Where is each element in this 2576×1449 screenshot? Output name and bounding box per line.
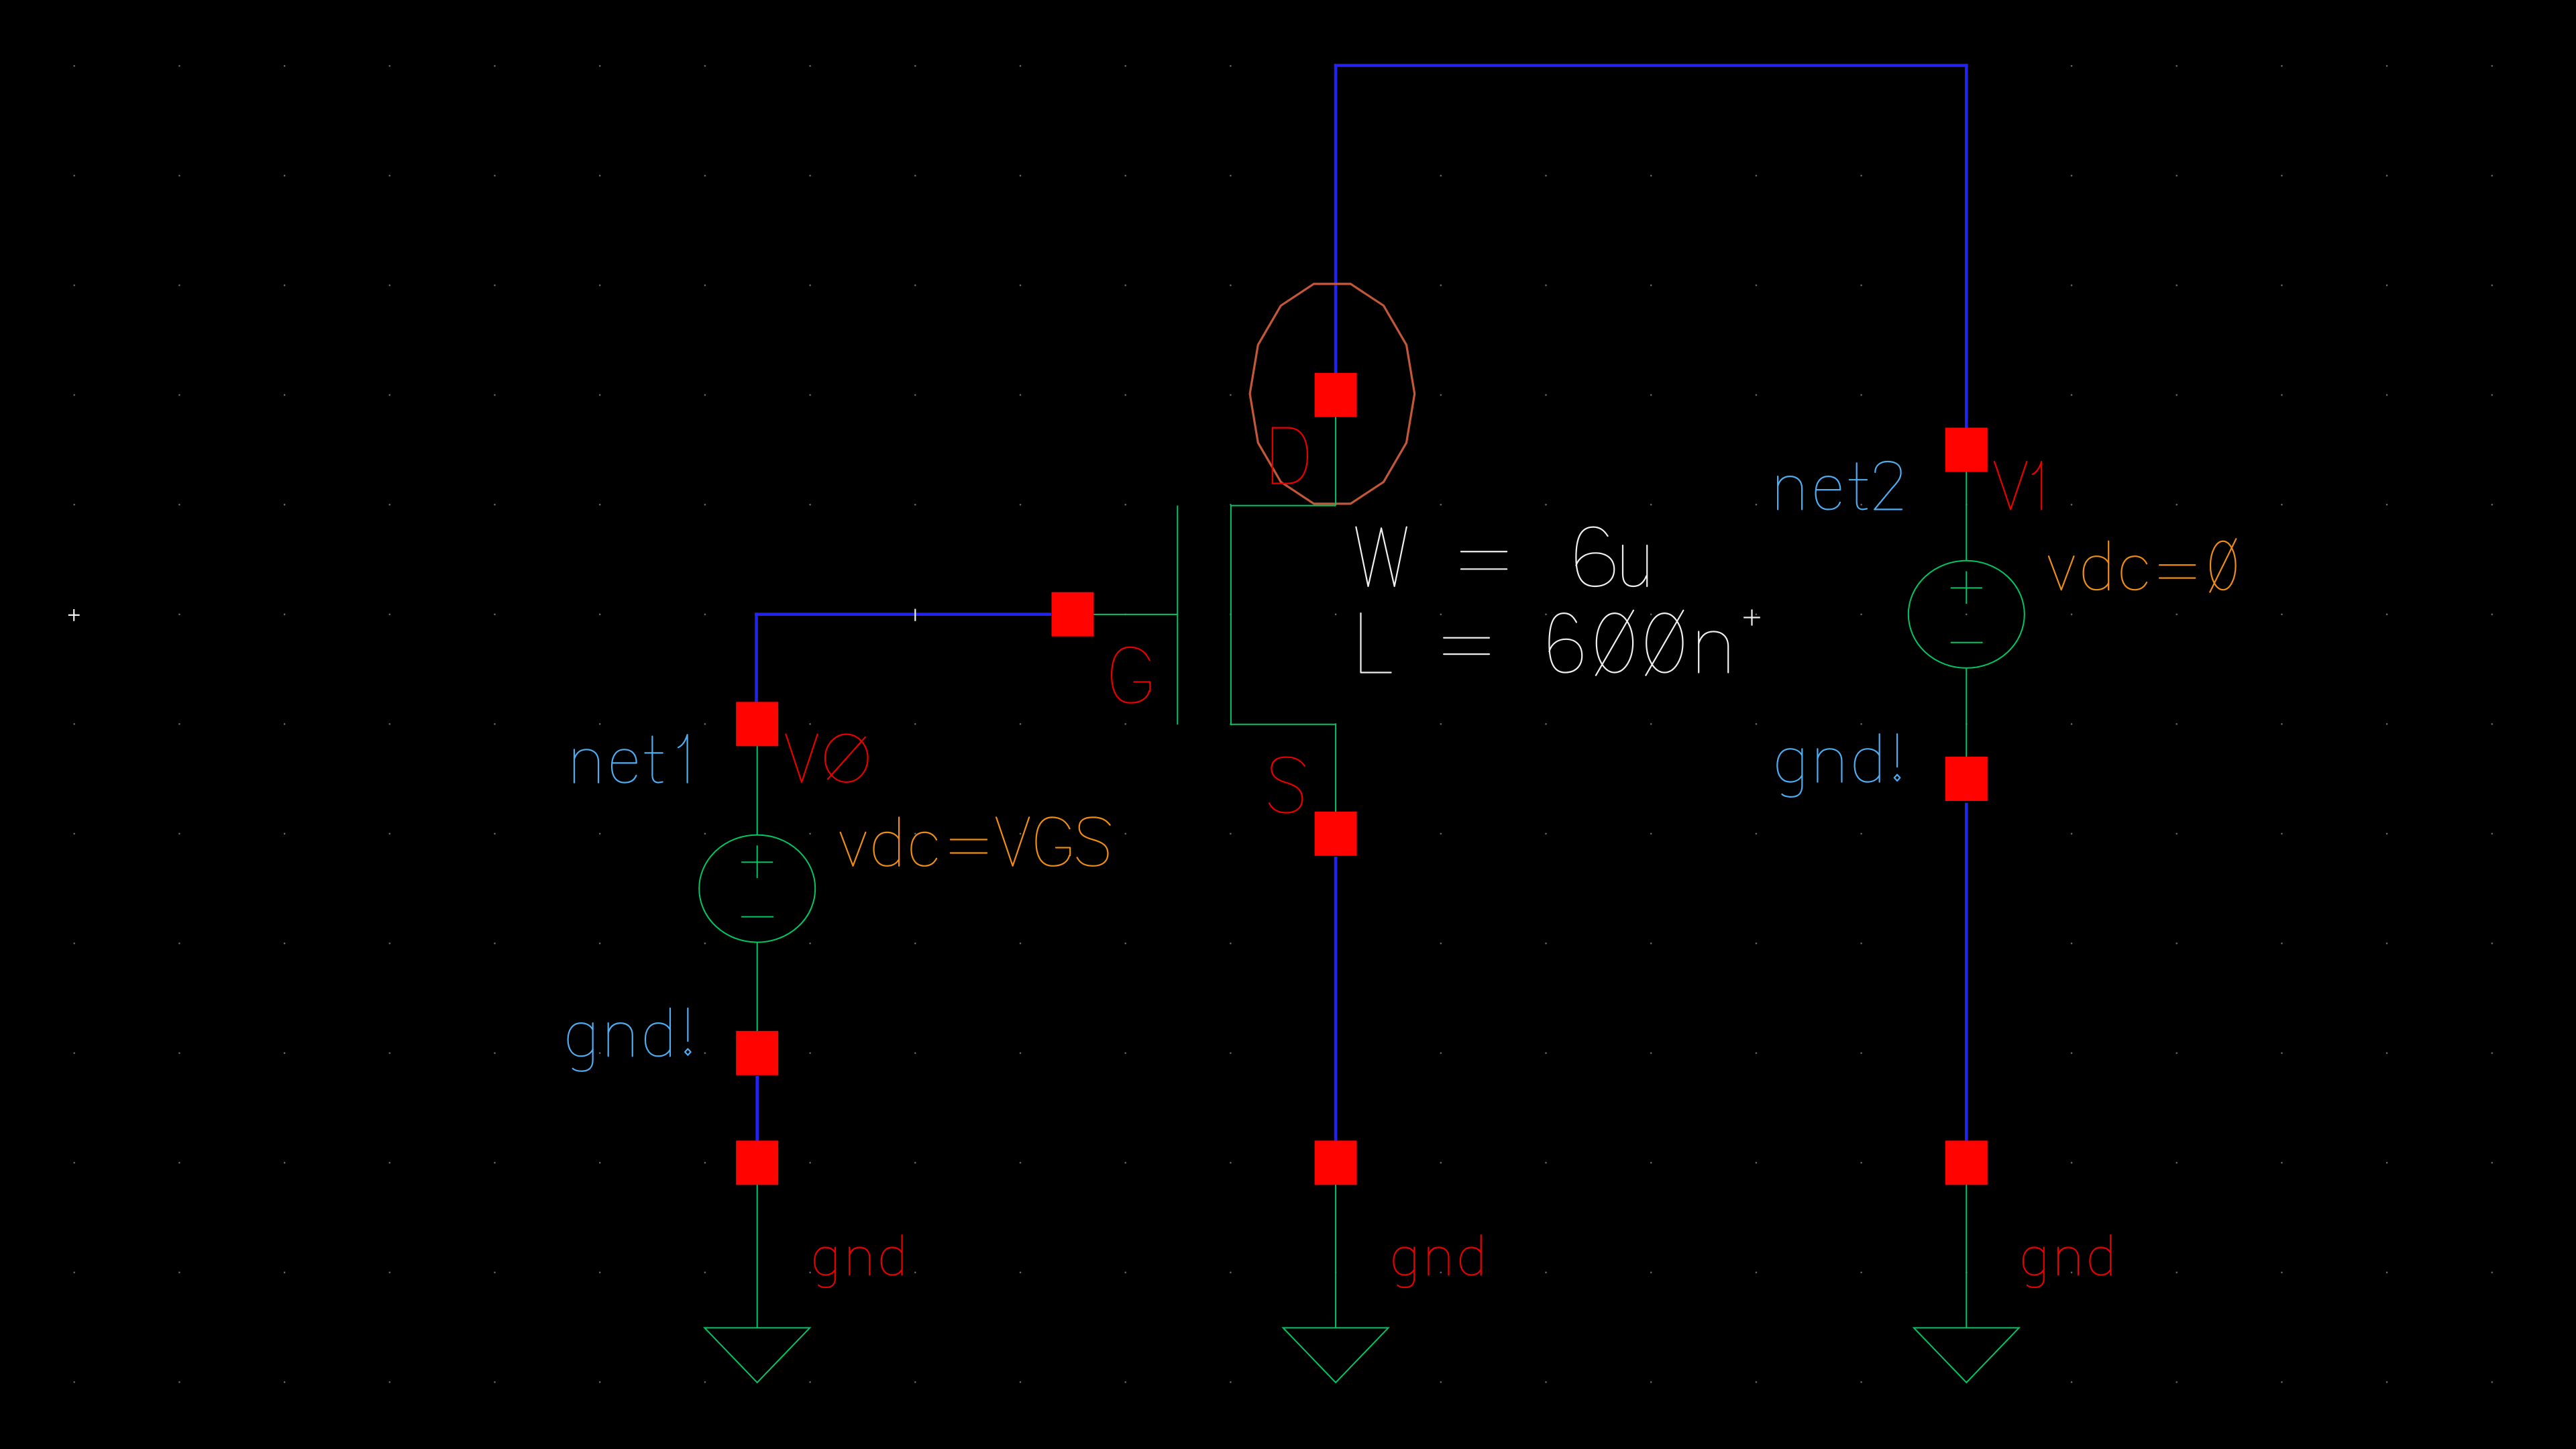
wire gnd! V1 minus to gnd pin [1965, 803, 1968, 1141]
wire net1 horizontal (V0 to gate) [755, 612, 1051, 616]
instance label gnd right [2023, 1235, 2110, 1287]
vsource V1 minus sign [1951, 642, 1983, 643]
pin label G [1112, 647, 1150, 703]
ground symbol middle lead [1335, 1163, 1336, 1328]
parameter label W = 6u [1356, 527, 1647, 586]
transistor NM0 source lead [1335, 724, 1336, 834]
pin square V1 plus (net2) [1945, 428, 1988, 472]
vsource V0 plus sign [741, 845, 773, 878]
wire net2 left vertical (down to drain D) [1334, 64, 1338, 373]
pin square gnd middle [1315, 1140, 1357, 1185]
wire gnd! V0 minus to gnd pin [755, 1076, 759, 1142]
pin square V0 minus (gnd!) [736, 1031, 778, 1075]
net label gnd! left [568, 1008, 691, 1071]
transistor NM0 drain horizontal [1231, 505, 1336, 506]
vsource V1 plus sign [1951, 572, 1982, 604]
pin label D [1273, 428, 1307, 484]
parameter label vdc=0 [2049, 539, 2236, 592]
vsource V1 circle [1909, 561, 2025, 668]
transistor NM0 gate lead [1073, 614, 1177, 615]
ground symbol middle triangle [1283, 1328, 1389, 1382]
net label gnd! right [1777, 734, 1900, 797]
instance label V1 [1994, 462, 2041, 509]
pin square gnd right [1945, 1140, 1988, 1185]
ground symbol right triangle [1914, 1328, 2019, 1382]
wire anchor tick on net1 [914, 609, 916, 621]
instance label gnd middle [1393, 1235, 1481, 1287]
instance label V0 [786, 735, 867, 782]
pin square V0 plus (net1) [736, 702, 778, 746]
vsource V1 bottom lead [1966, 668, 1967, 779]
origin marker plus right [1743, 610, 1760, 626]
parameter label L = 600n [1361, 610, 1729, 676]
net label net1 [574, 735, 688, 782]
pin square source S [1315, 812, 1357, 856]
wire net2 right vertical (down to V1 plus) [1965, 64, 1968, 428]
pin square gnd left [736, 1140, 778, 1185]
pin square drain D [1315, 373, 1357, 417]
transistor NM0 source horizontal [1231, 724, 1336, 725]
net label net2 [1778, 462, 1902, 509]
wire net1 vertical (down to V0 plus) [755, 612, 758, 702]
vsource V1 top lead [1966, 450, 1967, 561]
ground symbol right lead [1966, 1163, 1967, 1328]
parameter label vdc=VGS [841, 817, 1110, 865]
wire net2 top horizontal (drain to V1) [1334, 64, 1968, 67]
origin marker plus left [68, 609, 80, 621]
transistor NM0 channel bar [1230, 505, 1232, 726]
transistor NM0 gate bar [1177, 506, 1178, 725]
vsource V0 minus sign [741, 916, 773, 918]
pin square V1 minus (gnd!) [1945, 757, 1988, 801]
ground symbol left triangle [704, 1328, 810, 1382]
highlight ellipse around drain pin (selection probe) [1250, 284, 1415, 504]
pin square gate G [1052, 592, 1094, 637]
vsource V0 bottom lead [757, 943, 758, 1053]
vsource V0 top lead [757, 724, 758, 835]
wire source S to gnd pin [1334, 857, 1338, 1141]
vsource V0 circle [699, 835, 815, 943]
instance label gnd left [814, 1235, 902, 1287]
ground symbol left lead [757, 1163, 758, 1328]
transistor NM0 drain lead [1335, 395, 1336, 506]
pin label S [1269, 757, 1305, 813]
